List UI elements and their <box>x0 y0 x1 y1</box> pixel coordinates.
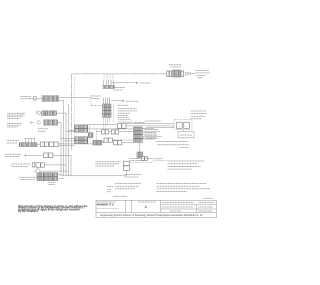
title block vertical divider 1 <box>131 200 133 212</box>
title block left cell text <box>97 201 116 203</box>
thermocouple TC2 pins <box>102 98 104 105</box>
title block right cell divider a <box>161 204 217 206</box>
wire: cluster left feeds <box>66 104 75 176</box>
label rows under TB1 <box>143 137 158 139</box>
connector C3 <box>42 111 48 116</box>
label above top-right connectors <box>169 64 182 66</box>
thermocouple TC1 pins <box>103 80 105 86</box>
svg-text:by the company.: by the company. <box>18 209 38 213</box>
label: sensor row 1 left <box>20 95 31 97</box>
wire: row3 to bus <box>58 122 62 176</box>
module M1 <box>178 132 194 138</box>
terminal ring E1 <box>185 72 188 75</box>
label under battery connector <box>124 173 142 175</box>
svg-text:Engineering Systems Division o: Engineering Systems Division of Technolo… <box>101 214 204 217</box>
terminal block TB1 column b <box>138 127 142 131</box>
connector pair C12 <box>40 142 44 147</box>
label block mid-left lower <box>96 161 122 163</box>
connector C5 <box>44 120 50 125</box>
wire: harness left edge vertical <box>70 74 72 150</box>
plug P1 <box>29 97 34 99</box>
wire: row A to block <box>119 131 134 133</box>
connector C2 <box>51 96 59 101</box>
plug P2 <box>24 154 29 156</box>
wire: inner dashed vertical of harness edge <box>73 76 75 136</box>
label: wire list under thermometer 2 <box>112 104 114 123</box>
label: sensor row 3 block <box>7 122 21 124</box>
wire: row I to bus <box>44 164 66 166</box>
wire: to dashed box c <box>88 128 140 130</box>
wire: drop to lower block <box>139 142 141 152</box>
wire: arrow to thermometer label 1 <box>112 82 139 84</box>
wire: main harness top line <box>71 73 166 75</box>
wire: TC2 drops to chain rows <box>103 117 109 129</box>
title block vertical divider 0 <box>124 200 126 212</box>
wire: row1 to bus <box>59 96 91 98</box>
connector pair C14 <box>43 153 48 158</box>
relay K2 <box>184 122 190 128</box>
central cluster block 2 <box>75 137 81 140</box>
label above title block <box>113 195 127 197</box>
wire: to dashed box b <box>126 125 174 127</box>
wires right of TB1 <box>142 127 154 129</box>
stub row B <box>96 142 97 144</box>
wire: cluster row3 right <box>88 137 93 139</box>
connector block C10 <box>137 152 143 158</box>
relay bank row 2 <box>37 177 44 181</box>
wire: horn to bus <box>40 170 68 172</box>
label: ground row 1 <box>7 140 19 142</box>
label: row I <box>11 163 30 165</box>
wire: drops to thermocouple group 1 <box>104 74 113 80</box>
wire: long bottom run to battery connector <box>61 170 126 176</box>
wire: row2 to bus <box>56 113 66 176</box>
label: Connection <box>145 120 161 122</box>
title block right cell divider b <box>161 208 217 210</box>
connector C6 <box>51 120 58 125</box>
terminal ring E2 <box>189 73 191 75</box>
connector C1 <box>42 96 50 101</box>
sensor S1 <box>36 110 38 113</box>
wire: cluster row1 right <box>88 124 118 126</box>
label: row H <box>5 153 22 155</box>
wire: row G to bus <box>58 143 93 145</box>
connector pair BC1 <box>123 161 129 165</box>
label: Thermometer 1 <box>140 82 151 84</box>
sensor S4 <box>32 163 35 167</box>
terminal block TB1 column a <box>134 127 138 131</box>
dashed enclosure DB1 <box>174 120 192 130</box>
wire: arrow to thermometer label 2 <box>111 100 125 102</box>
wire: chain row A <box>96 131 102 133</box>
stub left row3 <box>30 122 34 124</box>
svg-text:A: A <box>145 205 148 209</box>
label under relay bank <box>48 182 56 184</box>
connector pair C13 <box>49 142 53 147</box>
connector C4 <box>49 111 57 116</box>
svg-text:MAN/BDY IT A: MAN/BDY IT A <box>97 203 114 206</box>
wire: row B to block <box>112 139 133 141</box>
title block mid cell text <box>138 201 156 203</box>
wire: cluster drops <box>89 125 91 133</box>
title block vertical divider 2 <box>160 200 162 212</box>
connector J3 small on top line <box>181 71 184 76</box>
sensor S2 <box>37 121 40 124</box>
connector strip CS1 <box>19 143 37 147</box>
label right of top-right connectors <box>196 69 210 71</box>
label under TC1 <box>114 87 126 89</box>
relay K1 <box>177 122 183 128</box>
title block outer border <box>96 200 217 217</box>
label: row K <box>19 176 34 178</box>
sensor S3 <box>98 141 101 144</box>
label: Thermometer 2 <box>126 100 139 102</box>
label: footnote col right <box>157 183 206 185</box>
wire: to dashed box a <box>126 123 174 125</box>
connector J1 pair on top line <box>167 71 169 76</box>
label block top right <box>191 110 206 112</box>
connector pair on wire <box>117 124 121 129</box>
wire: right of C11 <box>148 157 153 159</box>
labels right of TB1 <box>145 129 159 131</box>
wire: strip to pairs <box>37 143 49 145</box>
label left of thermocouple group 2 <box>91 95 102 97</box>
horn symbol H1 <box>36 169 40 173</box>
title block right cell vline <box>196 205 198 213</box>
wire: cluster bottom feeds <box>58 138 74 145</box>
connector pair A2 <box>111 130 115 134</box>
label above battery connector <box>130 157 148 159</box>
label: sensor row 2 block <box>7 112 25 114</box>
label under row3 <box>38 128 48 130</box>
wire: row K lead <box>34 177 37 179</box>
note block right <box>168 160 204 162</box>
title block right cell texts <box>162 201 194 203</box>
wire: stub right of rings <box>191 73 195 75</box>
relay bank row 1 <box>37 173 44 177</box>
connector J2 multi-pin on top line <box>173 70 181 77</box>
connector pair C11 <box>141 157 144 161</box>
wire: stepped leader to note <box>130 161 168 163</box>
wire: row H to bus <box>53 155 71 176</box>
wire: feed to thermocouple group 2 <box>90 97 92 105</box>
label: footnote col left <box>107 186 113 188</box>
label above title block right <box>204 197 214 199</box>
connector pair B2 <box>114 141 118 145</box>
wire: bank to bus <box>58 174 61 176</box>
ground pins G1 <box>24 138 35 140</box>
central cluster block 1 <box>75 125 81 128</box>
connector block lower <box>93 140 102 145</box>
connector pair A1 <box>102 130 106 134</box>
connector pair mid <box>88 133 93 137</box>
wire: drop from DB1 <box>182 130 184 132</box>
title block row divider <box>96 211 217 213</box>
wire: row1b to bus <box>59 100 64 176</box>
connector pair B1 <box>104 138 108 142</box>
